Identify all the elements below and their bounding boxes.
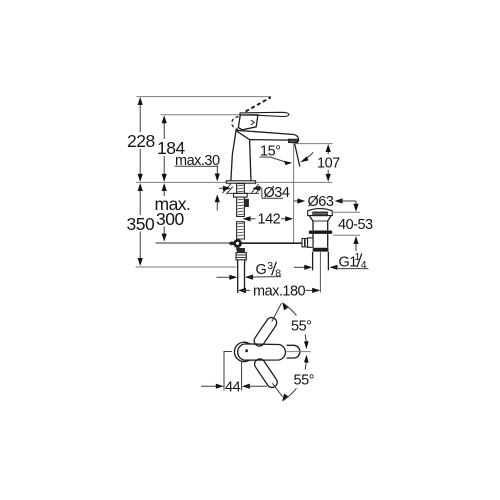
upper 55-degree arc with arrows — [282, 302, 311, 349]
deck / mounting surface line — [136, 181, 333, 183]
svg-text:350: 350 — [127, 214, 155, 234]
svg-text:44: 44 — [225, 380, 241, 396]
hose-end extension line (350 ref) — [136, 266, 237, 268]
svg-text:107: 107 — [317, 156, 340, 172]
lever tip cap — [287, 345, 300, 358]
lever blade (side view) — [240, 112, 289, 116]
label G1 1/4 with leader — [294, 251, 369, 271]
Ø34 arrows and label — [219, 185, 290, 201]
extension line (184 ref) — [161, 114, 246, 116]
svg-text:55°: 55° — [291, 319, 311, 335]
svg-text:8: 8 — [275, 267, 281, 279]
label Ø63 with arrows — [294, 194, 356, 210]
svg-text:142: 142 — [258, 212, 281, 228]
svg-text:300: 300 — [156, 209, 184, 229]
pop-up rod — [156, 239, 303, 251]
cartridge mark — [245, 349, 247, 352]
flange — [309, 231, 332, 234]
tailpipe — [313, 252, 329, 271]
rotated lever down — [253, 357, 280, 390]
lower 55-degree arc with arrows — [282, 355, 314, 402]
dimension 107 — [317, 144, 340, 182]
bottom view centerline — [287, 351, 311, 353]
spout outlet horizontal extension (107 ref) — [294, 143, 333, 145]
extension line top (228 ref) — [137, 96, 272, 98]
label G3/8 with leader — [217, 260, 282, 280]
lever boss — [238, 115, 258, 130]
spout outlet vertical extension line — [293, 144, 295, 243]
pop-up waste: plug head — [302, 209, 332, 293]
15-degree stream line — [295, 144, 300, 167]
label max.30 with leader — [175, 153, 220, 211]
rod clamp — [302, 239, 308, 247]
boss mark — [251, 120, 254, 125]
aerator — [288, 139, 297, 143]
label 15 degrees with leader arrow — [260, 143, 314, 165]
G3/8 nut and hose — [236, 248, 246, 293]
dimension max.180 — [238, 284, 320, 300]
svg-text:Ø63: Ø63 — [308, 194, 334, 210]
dimension 142 — [243, 212, 294, 228]
dimension 350 — [127, 183, 155, 266]
deck bottom line — [226, 192, 259, 194]
deck section hatch left — [223, 184, 233, 194]
dimension max.300 — [155, 183, 191, 242]
faucet body and spout outline — [231, 129, 236, 182]
svg-text:228: 228 — [127, 131, 155, 151]
body circle — [234, 342, 250, 361]
svg-text:G: G — [256, 262, 267, 278]
rotated lever up — [252, 316, 279, 349]
neck — [309, 216, 331, 221]
svg-text:55°: 55° — [294, 373, 314, 389]
lower body — [313, 234, 328, 248]
deck section hatch right — [252, 184, 261, 193]
dimension 44 — [201, 352, 267, 396]
rotated lever down extension line — [272, 383, 282, 397]
dashed arc (lever boss phantom) — [232, 117, 239, 129]
dimension 40-53 — [332, 201, 373, 251]
locknut — [313, 248, 329, 252]
dimension 228 — [127, 97, 155, 182]
lever blade outline — [238, 344, 286, 360]
rotated lever up extension line — [272, 303, 282, 321]
upper body — [313, 221, 328, 230]
base plate — [226, 181, 255, 183]
svg-text:max.180: max.180 — [253, 284, 306, 300]
svg-text:3: 3 — [267, 260, 273, 272]
svg-text:40-53: 40-53 — [338, 217, 373, 233]
svg-text:Ø34: Ø34 — [264, 185, 290, 201]
dimension 184 — [157, 115, 185, 182]
threaded shank below deck — [234, 184, 249, 239]
raised lever dashed line — [246, 97, 271, 111]
